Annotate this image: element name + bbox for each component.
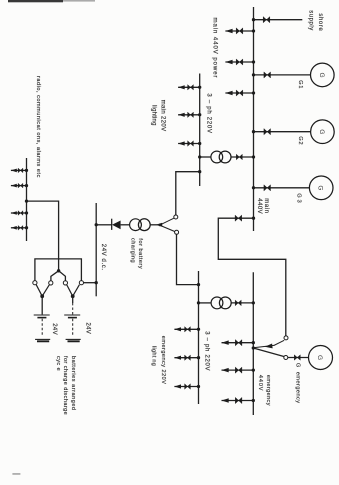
node: emergency 440V junction 3 — [252, 399, 255, 402]
svg-text:G: G — [318, 72, 325, 77]
transformer T1 (440/220V) — [211, 151, 231, 163]
svg-text:emergency: emergency — [265, 375, 271, 406]
node: battery line junction on emergency 220V bus — [197, 283, 200, 286]
node: 220V bus junction feeder 1 — [198, 86, 201, 89]
wire: generator G3 feeder — [254, 187, 310, 189]
wire: main 220V feeder 3 — [178, 143, 200, 145]
wire: emergency 220V feeder 3 — [174, 386, 198, 388]
node: battery 1 blade pivot — [40, 294, 44, 298]
wire: radio bus to battery inner bracket — [27, 201, 59, 271]
svg-text:shore: shore — [317, 13, 323, 31]
arrow: radio feeder 1 — [11, 169, 17, 173]
switch blade: battery charging changeover (closed to lower) — [160, 225, 176, 232]
arrow: emergency 440V feeder 2 — [222, 368, 229, 373]
circuit breaker: main transformer — [236, 154, 242, 160]
svg-text:G3: G3 — [295, 193, 301, 204]
switch blade: emergency changeover (upper throw) — [253, 345, 274, 347]
svg-text:G: G — [318, 129, 325, 134]
wire: 220V bus to battery changeover — [176, 172, 200, 215]
arrow: radio feeder 2 — [11, 184, 17, 188]
node: G3 junction on main bus — [252, 186, 255, 189]
wire: emergency 220V feeder 2 — [174, 357, 198, 359]
circuit breaker: emergency 220V feeder 3 — [185, 384, 191, 389]
generator G emergency — [309, 346, 333, 370]
svg-text:main 440V power: main 440V power — [212, 18, 218, 79]
wire: radio feeder 2 — [11, 185, 27, 187]
circuit breaker: main 220V feeder 3 — [188, 141, 194, 146]
diode: battery charging rectifier — [112, 219, 121, 230]
busbar: main 220V (vertical) — [199, 74, 201, 187]
node: transformer junction on 220V bus — [198, 155, 201, 158]
busbar: main 440V (vertical) — [253, 7, 255, 231]
switch blade: battery charging changeover (open to upper) — [162, 218, 174, 224]
circuit breaker: emergency 220V feeder 2 — [185, 355, 191, 360]
node: transformer junction on emergency 220V bus — [197, 301, 200, 304]
scan artifact: small dash bottom-left — [12, 473, 20, 474]
svg-text:3 – ph 220V: 3 – ph 220V — [206, 93, 212, 133]
wire: battery 2 mid (dashed) — [72, 319, 74, 336]
svg-text:supply: supply — [308, 10, 314, 31]
circuit breaker: emergency 220V feeder 1 — [185, 327, 191, 332]
circuit breaker: emergency transformer — [235, 300, 241, 306]
wire: rectifier to charger transformer — [121, 224, 130, 226]
circuit breaker: generator G1 — [264, 72, 271, 78]
node: main bus junction feeder 3 — [252, 91, 255, 94]
wire: battery 2 lead — [72, 296, 74, 303]
contact: battery 2 inner — [63, 281, 67, 285]
busbar: emergency 220V (vertical) — [198, 271, 200, 404]
svg-text:emergency 220V: emergency 220V — [160, 336, 166, 385]
contact: changeover upper (from main 220V) — [174, 215, 178, 219]
generator G1 — [311, 63, 335, 87]
contact: battery 1 inner — [49, 281, 53, 285]
switch blade: battery 2 to inner — [67, 285, 73, 296]
arrow: radio feeder 3 — [11, 211, 17, 215]
arrow: emergency 440V feeder 3 — [222, 398, 229, 403]
wire: main transformer primary — [231, 156, 254, 158]
contact: battery 2 outer — [79, 281, 83, 285]
svg-text:G1: G1 — [297, 80, 303, 89]
wire: main 220V feeder 1 — [178, 86, 200, 88]
circuit breaker: radio feeder 1 — [18, 168, 23, 173]
circuit breaker: radio feeder 2 — [18, 183, 23, 188]
svg-text:G emergency: G emergency — [295, 363, 301, 404]
node: battery 2 blade pivot — [71, 294, 75, 298]
node: radio bus junction 1 — [25, 169, 28, 172]
label: for battery charging — [129, 238, 143, 269]
svg-text:main 220V: main 220V — [160, 100, 166, 132]
wire: main 440V feeder 3 — [225, 92, 253, 94]
switch blade: emergency changeover (open link to upper contact) — [274, 340, 284, 345]
arrow: emergency changeover blade — [265, 344, 273, 350]
wire: battery 1 lead — [41, 296, 43, 314]
node: radio supply junction — [25, 199, 28, 202]
wire: shore supply feeder — [254, 19, 303, 21]
svg-text:24V d.c.: 24V d.c. — [100, 244, 106, 271]
wire: 24V bus to rectifier — [96, 224, 112, 226]
node: emergency 440V junction 1 — [252, 341, 255, 344]
wire: generator G1 feeder — [254, 74, 311, 76]
generator G2 — [311, 120, 335, 144]
arrow: emergency 220V feeder 2 — [174, 356, 181, 360]
node: transformer junction on main bus — [252, 155, 255, 158]
node: main bus junction feeder 1 — [252, 29, 255, 32]
node: 220V bus junction feeder 2 — [198, 113, 201, 116]
node: G2 junction on main bus — [252, 130, 255, 133]
svg-text:cyc e: cyc e — [55, 356, 61, 371]
transformer T2 (emergency 440/220V) — [211, 297, 231, 309]
wire: emergency 440V feeder 2 — [222, 369, 254, 371]
wire: changeover lower contact to emergency 220V bus — [177, 234, 199, 284]
wire: battery 1 mid (dashed) — [41, 319, 43, 336]
contact: emergency changeover upper (from main) — [284, 336, 288, 340]
svg-text:light ng: light ng — [150, 346, 156, 366]
node: shore feeder junction on main bus — [252, 18, 255, 21]
arrow: changeover blade (battery charging) — [156, 223, 162, 227]
circuit breaker: emergency 440V feeder 2 — [235, 367, 242, 373]
wire: 24V bus to battery outer contact — [84, 282, 97, 284]
node: emergency feeder junction on main bus — [252, 217, 255, 220]
busbar: 24V d.c. (vertical) — [95, 203, 97, 296]
label: batteries arranged for charge discharge cycle — [55, 356, 76, 415]
busbar: emergency 440V (vertical) — [252, 272, 254, 415]
arrow: main 220V feeder 2 — [178, 113, 185, 117]
busbar: radio-communications d.c. (vertical) — [26, 158, 28, 241]
svg-text:for battery: for battery — [137, 238, 143, 269]
arrow: main 220V feeder 1 — [178, 85, 185, 89]
node: radio bus junction 3 — [25, 211, 28, 214]
circuit breaker: radio feeder 4 — [18, 226, 23, 231]
node: changeover junction on emergency bus — [252, 346, 255, 349]
svg-text:charging: charging — [129, 238, 135, 263]
label: shore supply — [308, 10, 323, 31]
arrow: main 440V feeder 2 — [225, 60, 232, 64]
svg-text:main: main — [263, 198, 269, 213]
arrow: emergency 220V feeder 1 — [174, 327, 181, 331]
contact: emergency changeover lower (to generator) — [284, 356, 288, 360]
wire: main 220V feeder 2 — [178, 114, 200, 116]
node: battery-charge junction on 220V bus — [198, 170, 201, 173]
wire: battery outer bracket — [35, 259, 82, 281]
wire: charger transformer to changeover pivot — [150, 224, 158, 226]
circuit breaker: shore supply — [263, 17, 270, 23]
wire: emergency 440V feeder 1 — [222, 342, 254, 344]
generator G3 — [309, 176, 333, 200]
arrow: main 440V feeder 1 — [225, 29, 232, 33]
node: 220V bus junction feeder 3 — [198, 142, 201, 145]
switch blade: battery 2 to outer — [73, 285, 80, 297]
svg-text:24V: 24V — [51, 323, 57, 335]
switch blade: battery 1 to outer — [36, 285, 42, 297]
svg-text:lighting: lighting — [150, 105, 156, 126]
arrow: emergency 440V feeder 1 — [222, 340, 229, 345]
node: inner bracket junction — [57, 269, 60, 272]
wire: radio feeder 1 — [11, 169, 27, 171]
wire: generator G2 feeder — [254, 131, 311, 133]
arrow: main 440V feeder 3 — [225, 91, 232, 95]
node: emergency 440V junction 2 — [252, 368, 255, 371]
wire: emergency supply feeder from main bus — [218, 218, 285, 336]
svg-text:G2: G2 — [297, 136, 303, 145]
wire: battery 2 lead (dashed) — [72, 303, 74, 314]
svg-text:G: G — [316, 355, 323, 360]
node: changeover pivot (battery charging) — [158, 224, 161, 227]
node: emergency 220V junction 2 — [197, 356, 200, 359]
contact: battery 1 outer — [33, 281, 37, 285]
arrow: main 220V feeder 3 — [178, 141, 185, 145]
wire: emergency transformer secondary — [199, 302, 212, 304]
wire: main 440V feeder 2 — [225, 61, 253, 63]
svg-text:24V: 24V — [85, 323, 91, 335]
svg-text:batteries arranged: batteries arranged — [70, 356, 76, 411]
contact: changeover lower (to emergency 220V) — [175, 230, 179, 234]
circuit breaker: main 440V feeder 3 — [236, 90, 243, 96]
node: radio bus junction 2 — [25, 184, 28, 187]
battery BT2 top cell — [64, 315, 80, 318]
label: main 220V lighting — [150, 100, 165, 132]
node: radio bus junction 4 — [25, 226, 28, 229]
scan artifact: dark bar top-left — [8, 0, 95, 2]
circuit breaker: emergency 440V feeder 3 — [235, 397, 242, 403]
node: emergency 220V junction 1 — [197, 328, 200, 331]
wire: battery inner bracket right — [59, 271, 66, 281]
circuit breaker: emergency 440V feeder 1 — [235, 340, 242, 346]
svg-text:440V: 440V — [256, 198, 262, 214]
circuit breaker: emergency generator — [294, 355, 300, 360]
switch blade: emergency changeover (closed to lower) — [253, 348, 284, 357]
circuit breaker: generator G3 — [264, 185, 271, 191]
battery BT2 bottom cell — [66, 339, 81, 341]
wire: emergency 440V feeder 3 — [222, 400, 254, 402]
node: rectifier junction on 24V bus — [95, 223, 98, 226]
wire: emergency generator link — [288, 357, 309, 359]
arrow: radio feeder 4 — [11, 226, 17, 230]
node: main bus junction feeder 2 — [252, 60, 255, 63]
circuit breaker: main 220V feeder 2 — [188, 112, 194, 117]
circuit breaker: main 220V feeder 1 — [188, 85, 194, 90]
svg-text:for charge discharge: for charge discharge — [62, 356, 68, 415]
wire: emergency 220V feeder 1 — [174, 328, 198, 330]
wire: radio feeder 4 — [11, 227, 27, 229]
wire: emergency transformer primary — [231, 302, 253, 304]
wire: battery inner bracket left — [51, 271, 59, 281]
svg-text:G: G — [317, 185, 324, 190]
circuit breaker: radio feeder 3 — [18, 211, 23, 216]
wire: main transformer secondary — [200, 156, 211, 158]
wire: main 440V feeder 1 — [225, 30, 253, 32]
label: main 440V (near G3) — [256, 198, 269, 214]
label: emergency 440V — [257, 375, 271, 406]
circuit breaker: main 440V feeder 2 — [236, 59, 243, 65]
circuit breaker: generator G2 — [264, 129, 271, 135]
transformer: battery charger — [130, 219, 151, 231]
node: emergency 220V junction 3 — [197, 385, 200, 388]
label: emergency 220V lighting — [150, 336, 166, 385]
wire: radio feeder 3 — [11, 212, 27, 214]
svg-text:radio, communicat ons, alarms: radio, communicat ons, alarms etc — [35, 76, 41, 178]
battery BT1 bottom cell — [35, 339, 50, 341]
battery BT1 top cell — [34, 315, 50, 318]
circuit breaker: emergency supply feeder — [235, 215, 242, 221]
circuit breaker: main 440V feeder 1 — [236, 28, 243, 34]
arrow: emergency 220V feeder 3 — [174, 384, 181, 388]
node: transformer junction on emergency 440V bus — [252, 301, 255, 304]
svg-text:440V: 440V — [257, 375, 263, 391]
svg-text:3 – ph 220V: 3 – ph 220V — [203, 331, 209, 371]
switch blade: battery 1 to inner — [42, 285, 49, 296]
node: G1 junction on main bus — [252, 73, 255, 76]
node: battery link junction on 24V bus — [95, 281, 98, 284]
